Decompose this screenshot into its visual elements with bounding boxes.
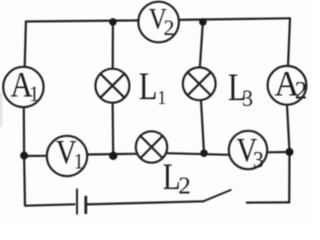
svg-text:L: L [139,65,158,108]
svg-text:1: 1 [29,81,39,107]
svg-text:3: 3 [242,86,253,112]
svg-text:1: 1 [157,87,166,110]
svg-text:1: 1 [74,148,84,174]
svg-text:2: 2 [295,78,308,105]
svg-text:3: 3 [253,147,264,173]
svg-text:2: 2 [178,173,191,199]
svg-text:2: 2 [164,15,175,40]
